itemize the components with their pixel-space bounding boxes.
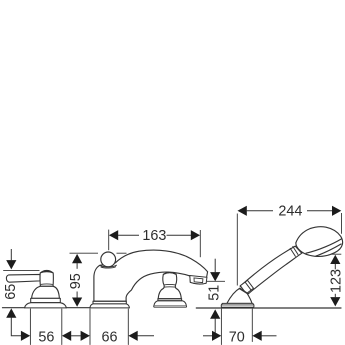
deck line middle segment <box>66 307 90 309</box>
dimension 56 bottom arrows <box>62 331 90 341</box>
dimension 95 vertical <box>70 253 127 307</box>
svg-text:51: 51 <box>207 285 223 301</box>
extension line below deck x=30.4 <box>29 309 31 345</box>
dimension 66 bottom arrows <box>128 331 221 341</box>
dimension 65 vertical left <box>3 249 39 341</box>
dimension 163 horizontal <box>109 230 201 258</box>
svg-text:70: 70 <box>229 330 245 345</box>
handshower head <box>296 227 343 257</box>
diverter escutcheon base <box>154 299 187 307</box>
spout aerator <box>190 276 207 284</box>
left handle escutcheon base <box>25 298 66 308</box>
extension line below deck x=128.3 <box>127 309 129 345</box>
deck line left segment <box>3 307 25 309</box>
extension line below deck x=252.3 <box>251 309 253 342</box>
handshower handle <box>240 246 302 294</box>
spout ball <box>100 252 117 268</box>
spout arch body <box>94 250 208 301</box>
svg-text:244: 244 <box>278 204 302 220</box>
svg-text:56: 56 <box>38 330 54 345</box>
handshower hose nut bands <box>240 246 298 294</box>
spout escutcheon base <box>90 301 129 308</box>
diverter knob <box>158 273 181 299</box>
svg-text:163: 163 <box>142 228 166 244</box>
dimension 244 horizontal <box>237 206 341 286</box>
svg-text:123: 123 <box>328 269 344 293</box>
dimension 70 bottom arrows <box>252 331 276 341</box>
handshower holder base disc <box>221 303 254 307</box>
left handle bell <box>32 286 60 298</box>
deck line right segment <box>196 307 341 309</box>
svg-text:65: 65 <box>3 284 19 300</box>
extension line below deck x=90 <box>89 309 91 345</box>
svg-text:95: 95 <box>68 273 84 289</box>
extension line below deck x=61.8 <box>61 309 63 345</box>
svg-text:66: 66 <box>101 330 117 345</box>
left handle lever <box>6 274 40 282</box>
dimension 123 vertical right <box>327 254 341 306</box>
left handle post <box>40 270 53 286</box>
dimension 51 vertical <box>207 259 225 336</box>
handshower holder cone <box>227 288 252 303</box>
extension line below deck x=221.4 <box>220 309 222 345</box>
